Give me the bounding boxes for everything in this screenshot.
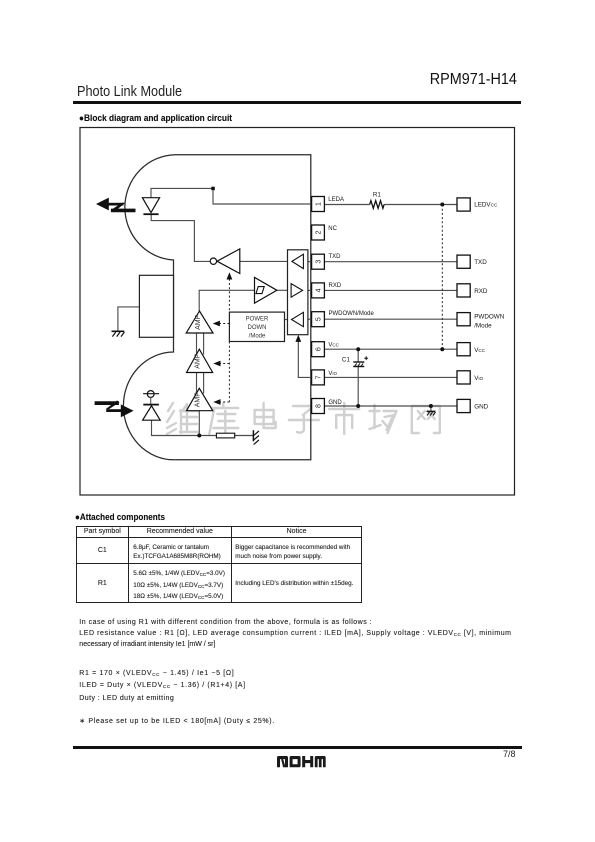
dashed wire PD box down bbox=[228, 342, 230, 403]
svg-text:VIO: VIO bbox=[474, 375, 483, 382]
svg-text:PWDOWN: PWDOWN bbox=[474, 314, 505, 321]
section title: attached components bbox=[75, 512, 165, 522]
svg-text:3: 3 bbox=[316, 260, 323, 264]
svg-text:POWER: POWER bbox=[246, 317, 269, 323]
ground (GND rail) bbox=[427, 411, 436, 415]
watermark char 7 bbox=[412, 406, 440, 433]
svg-text:DOWN: DOWN bbox=[248, 325, 267, 331]
POWER DOWN /Mode box bbox=[229, 312, 284, 341]
buffer T3 (PWDOWN) bbox=[292, 312, 304, 326]
wire inverter input from buffer T1 bbox=[240, 260, 292, 262]
svg-text:/Mode: /Mode bbox=[474, 323, 492, 330]
ground (driver) bbox=[112, 331, 125, 336]
wire AMP3 input from junction bbox=[198, 411, 200, 436]
svg-text:7: 7 bbox=[316, 375, 323, 379]
pin numbers bbox=[316, 202, 323, 408]
wire AMP1-AMP2 pair bbox=[197, 333, 204, 355]
svg-text:6: 6 bbox=[316, 347, 323, 351]
op-amp AMP1 bbox=[186, 311, 213, 333]
note bbox=[79, 717, 274, 725]
wire ground stub on GND rail bbox=[430, 406, 432, 411]
header part number bbox=[430, 71, 517, 89]
wire pin4 to RXD terminal bbox=[324, 289, 457, 291]
svg-text:GND: GND bbox=[474, 404, 488, 411]
wire T3 to pin5 bbox=[303, 318, 311, 320]
header rule bbox=[73, 101, 522, 104]
wire photodiode anode bottom rail bbox=[152, 420, 254, 435]
section title: block diagram bbox=[79, 113, 232, 123]
arrowhead up into inverter bbox=[227, 272, 233, 279]
svg-text:R1: R1 bbox=[373, 192, 382, 199]
watermark char 2 bbox=[208, 403, 238, 434]
wire POWER DOWN box to T3 bbox=[285, 319, 292, 321]
wire pin6 to Vcc terminal bbox=[324, 348, 457, 350]
svg-text:5: 5 bbox=[316, 317, 323, 321]
junction dots bbox=[197, 203, 444, 438]
wire pin7 to buffer block arrow bbox=[298, 342, 311, 378]
svg-text:8: 8 bbox=[316, 404, 323, 408]
components table bbox=[76, 526, 363, 603]
svg-text:1: 1 bbox=[316, 202, 323, 206]
arrowhead left into AMP3 bbox=[213, 399, 220, 405]
op-amp AMP3 bbox=[187, 388, 213, 410]
pin boxes 1-8 bbox=[312, 197, 325, 414]
diagram outer box bbox=[80, 128, 515, 496]
dashed wire LEDVcc to Vcc bbox=[441, 205, 443, 350]
wire T1 to pin3 bbox=[303, 261, 311, 263]
wire pin7 to Vio terminal bbox=[324, 376, 457, 378]
dashed branch to AMP2 bbox=[220, 363, 229, 365]
wire pin8 to GND terminal bbox=[324, 405, 457, 407]
light input arrow (receive) bbox=[95, 401, 134, 418]
ground (photodiode rail, rotated) bbox=[253, 430, 259, 444]
watermark char 1 bbox=[167, 403, 199, 434]
footer rule bbox=[73, 746, 522, 748]
dashed branch to AMP1 bbox=[219, 323, 229, 325]
svg-text:RXD: RXD bbox=[329, 283, 342, 289]
photodiode PD bbox=[143, 391, 161, 421]
formulas bbox=[79, 668, 245, 705]
wire hysteresis input from AMP1 bbox=[199, 290, 254, 311]
terminal labels bbox=[474, 202, 505, 411]
page number bbox=[503, 749, 516, 759]
wire pin1 to R1 to LEDVcc bbox=[324, 204, 457, 206]
svg-text:2: 2 bbox=[316, 230, 323, 234]
svg-text:LEDVCC: LEDVCC bbox=[474, 202, 498, 209]
arrowhead left into AMP1 bbox=[213, 321, 220, 327]
svg-text:GND: GND bbox=[328, 400, 342, 406]
resistor (internal, box style) bbox=[216, 433, 234, 438]
wire C1 branch bbox=[357, 349, 359, 406]
svg-text:4: 4 bbox=[316, 288, 323, 292]
capacitor C1 bbox=[342, 356, 368, 366]
watermark char 3 bbox=[255, 403, 276, 428]
svg-text:PWDOWN/Mode: PWDOWN/Mode bbox=[329, 311, 375, 317]
pin labels bbox=[328, 197, 374, 406]
svg-text:RXD: RXD bbox=[474, 288, 488, 295]
svg-text:TXD: TXD bbox=[329, 254, 342, 260]
dashed wire PD box up to inverter bbox=[228, 279, 230, 312]
module package outline bbox=[123, 155, 310, 460]
svg-text:AMP: AMP bbox=[195, 314, 202, 330]
wire LED anode to pin1 bbox=[151, 188, 312, 204]
svg-text:VIO: VIO bbox=[328, 371, 337, 377]
header doc title bbox=[77, 84, 182, 100]
svg-text:C1: C1 bbox=[342, 357, 351, 364]
svg-text:AMP: AMP bbox=[195, 353, 202, 369]
wire hysteresis output to T2 bbox=[277, 289, 291, 291]
op-amp AMP2 bbox=[187, 349, 213, 372]
wire pin3 to TXD terminal bbox=[324, 261, 457, 263]
ROHM logo bbox=[277, 756, 326, 767]
hysteresis comparator bbox=[255, 277, 277, 303]
dashed branch to AMP3 bbox=[220, 401, 229, 403]
wire pin5 to PWDOWN terminal bbox=[324, 318, 457, 320]
wire driver block to ground bbox=[118, 307, 139, 331]
watermark char 6 bbox=[370, 405, 397, 433]
arrowhead up into buffer block (Vio) bbox=[295, 335, 301, 342]
watermark char 5 bbox=[329, 403, 359, 434]
light emission arrow (transmit) bbox=[96, 198, 136, 213]
svg-text:AMP: AMP bbox=[195, 392, 202, 408]
buffer T1 (TXD) bbox=[292, 254, 304, 268]
resistor R1 bbox=[370, 192, 384, 209]
wire T2 to pin4 bbox=[303, 289, 312, 291]
wire AMP2-AMP3 pair bbox=[197, 373, 204, 394]
svg-text:VCC: VCC bbox=[474, 347, 486, 354]
LED driver block bbox=[139, 275, 173, 337]
LED D1 bbox=[142, 198, 159, 215]
svg-text:LEDA: LEDA bbox=[328, 197, 344, 203]
wire LED cathode to inverter output bbox=[151, 214, 210, 261]
inverter U2 bbox=[210, 249, 240, 274]
body paragraph 1 bbox=[79, 617, 559, 651]
arrowhead left into AMP2 bbox=[213, 361, 220, 367]
svg-text:NC: NC bbox=[328, 226, 337, 232]
svg-text:TXD: TXD bbox=[474, 259, 487, 266]
I/O buffer block bbox=[288, 250, 308, 335]
svg-text:VCC: VCC bbox=[328, 343, 338, 349]
buffer T2 (RXD) bbox=[291, 284, 303, 298]
svg-text:/Mode: /Mode bbox=[249, 333, 266, 339]
terminal boxes bbox=[457, 198, 470, 413]
node square junction (anode corner) bbox=[211, 187, 215, 191]
watermark char 4 bbox=[289, 406, 319, 433]
